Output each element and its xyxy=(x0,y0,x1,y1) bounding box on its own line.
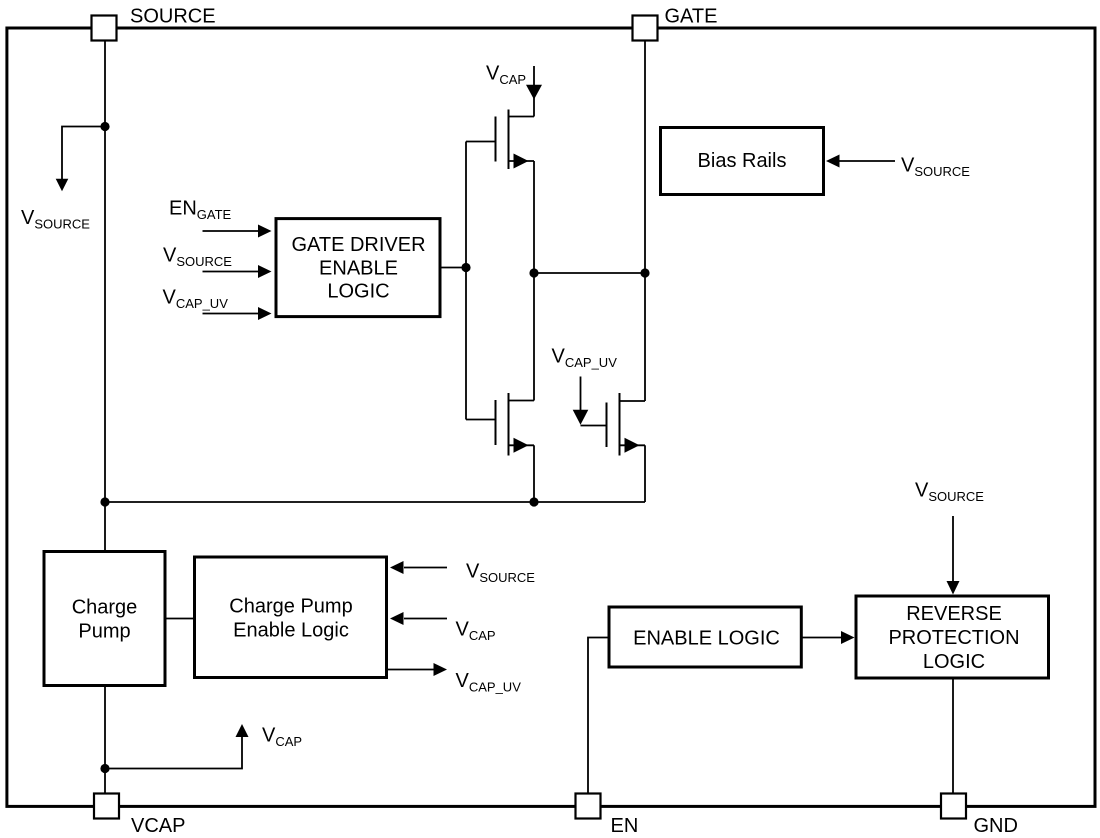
junction SOURCE rail / bottom rail xyxy=(100,497,109,506)
svg-text:REVERSE: REVERSE xyxy=(906,603,1002,625)
wire V_CAP_UV output from CP enable logic xyxy=(388,669,434,671)
junction Q2 source / bottom rail xyxy=(529,497,538,506)
svg-text:LOGIC: LOGIC xyxy=(923,651,985,673)
wire V_SOURCE into Bias Rails xyxy=(840,160,896,162)
arrow V_CAP_UV input xyxy=(258,307,272,320)
wire V_CAP stub bottom xyxy=(105,737,242,769)
wire charge pump to enable logic xyxy=(165,618,196,620)
svg-text:LOGIC: LOGIC xyxy=(327,281,389,303)
wire GATE rail (GATE pin down to Q3 drain) xyxy=(644,41,646,401)
wire V_CAP_UV input arrow xyxy=(203,313,260,315)
svg-text:Pump: Pump xyxy=(78,620,130,642)
svg-text:SOURCE: SOURCE xyxy=(130,6,216,28)
block bias rails U2 xyxy=(661,128,824,195)
wire Q1 source to Q2 drain (x=533.5 rail) xyxy=(533,161,535,401)
block charge pump U3 xyxy=(44,552,165,686)
svg-text:GATE: GATE xyxy=(665,6,718,28)
arrow V_CAP into CP enable logic xyxy=(390,612,404,625)
transistor Q3 (bottom-right NMOS) xyxy=(607,393,646,456)
wire Q2 source down xyxy=(533,445,535,502)
wire Q2 gate stub xyxy=(466,419,496,421)
junction SOURCE rail / V_SOURCE stub xyxy=(100,122,109,131)
svg-text:Bias Rails: Bias Rails xyxy=(698,150,787,172)
arrow V_CAP_UV output xyxy=(434,663,448,676)
junction VCAP rail / V_CAP stub xyxy=(100,764,109,773)
wire Q3 source down xyxy=(644,445,646,502)
wire V_CAP_UV down arrow to Q3 gate xyxy=(580,377,582,411)
wire gate rail (Q1 gate to Q2 gate) xyxy=(465,142,467,420)
svg-text:EN: EN xyxy=(611,815,639,837)
pin GATE xyxy=(633,16,658,41)
block enable logic U5 xyxy=(609,607,801,667)
junction gate rail / logic output xyxy=(461,263,470,272)
svg-text:GATE DRIVER: GATE DRIVER xyxy=(291,234,425,256)
wire logic output xyxy=(440,267,466,269)
label Charge Pump xyxy=(72,597,138,643)
label GATE DRIVER ENABLE LOGIC xyxy=(291,234,425,303)
block reverse protection logic U6 xyxy=(856,596,1049,678)
svg-text:ENABLE: ENABLE xyxy=(319,258,398,280)
wire V_SOURCE input arrow xyxy=(203,271,260,273)
wire charge pump down to VCAP pin xyxy=(104,687,106,794)
label REVERSE PROTECTION LOGIC xyxy=(888,603,1019,673)
wire EN pin to enable logic xyxy=(588,638,608,794)
block gate driver enable logic U1 xyxy=(276,219,440,317)
arrow V_CAP feed xyxy=(526,85,542,100)
arrow V_CAP stub bottom xyxy=(236,724,249,737)
wire Q1 gate stub xyxy=(466,141,496,143)
arrow V_CAP_UV to Q3 gate xyxy=(573,410,589,425)
arrow V_SOURCE stub xyxy=(56,179,69,192)
svg-text:GND: GND xyxy=(974,815,1018,837)
arrow EN_GATE input xyxy=(258,225,272,238)
wire enable logic to reverse protection logic xyxy=(802,637,842,639)
pin EN xyxy=(576,794,601,819)
svg-text:VCAP: VCAP xyxy=(131,815,185,837)
svg-text:ENABLE LOGIC: ENABLE LOGIC xyxy=(633,628,780,650)
arrow V_SOURCE input xyxy=(258,265,272,278)
wire Q3 gate stub xyxy=(581,425,607,427)
svg-text:Charge Pump: Charge Pump xyxy=(229,596,352,618)
wire V_CAP input to CP enable logic xyxy=(404,618,447,620)
wire V_SOURCE down to reverse protection logic xyxy=(952,516,954,582)
transistor Q1 (top NMOS) xyxy=(496,110,535,170)
svg-text:Enable Logic: Enable Logic xyxy=(233,619,349,641)
wire V_SOURCE input to CP enable logic xyxy=(404,567,447,569)
wire V_SOURCE stub top-left xyxy=(62,127,105,180)
block charge pump enable logic U4 xyxy=(195,557,387,678)
junction drain node right (GATE rail) xyxy=(640,268,649,277)
wire SOURCE rail (SOURCE pin down to Charge Pump) xyxy=(104,41,106,550)
wire source net bottom rail xyxy=(105,501,645,503)
label Charge Pump Enable Logic xyxy=(229,596,352,642)
wire EN_GATE input arrow xyxy=(203,230,260,232)
svg-text:PROTECTION: PROTECTION xyxy=(888,627,1019,649)
arrow V_SOURCE into Bias Rails xyxy=(826,155,840,168)
arrow V_SOURCE into reverse protection logic xyxy=(947,581,960,595)
transistor Q2 (bottom-left NMOS) xyxy=(496,393,535,456)
pin SOURCE xyxy=(92,16,117,41)
arrow into reverse protection logic xyxy=(841,631,855,644)
pin VCAP xyxy=(94,794,119,819)
wire reverse protection logic to GND pin xyxy=(952,680,954,794)
junction drain node left xyxy=(529,268,538,277)
wire V_CAP feed to Q1 drain xyxy=(533,66,535,117)
svg-text:Charge: Charge xyxy=(72,597,138,619)
pin GND xyxy=(941,794,966,819)
arrow V_SOURCE into CP enable logic xyxy=(390,561,404,574)
wire drain node to GATE rail xyxy=(534,272,645,274)
